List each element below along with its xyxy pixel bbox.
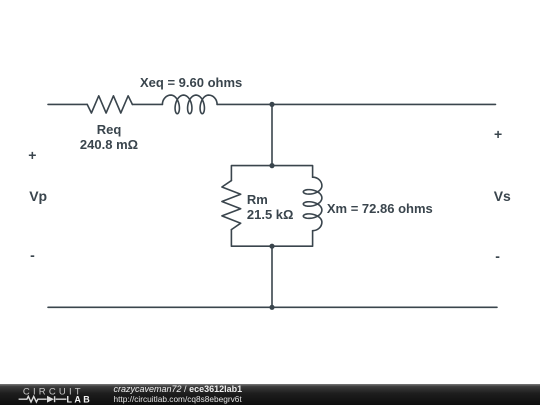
svg-text:LAB: LAB	[67, 395, 93, 405]
